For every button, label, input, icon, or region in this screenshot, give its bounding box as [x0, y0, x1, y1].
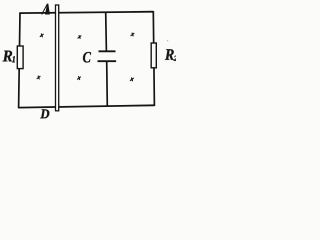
- capacitor C top plate: [99, 50, 116, 52]
- field cross x1 top-left: [40, 34, 43, 37]
- wire left edge: [19, 12, 20, 108]
- sliding rod AD: [56, 5, 59, 111]
- label D: [40, 109, 49, 118]
- label C: [83, 52, 91, 63]
- field cross x4 bottom-middle: [78, 77, 81, 80]
- field cross x2 bottom-left: [37, 76, 40, 79]
- field cross x3 top-middle: [78, 36, 81, 39]
- field cross x5 top-right: [131, 33, 134, 36]
- resistor R2 box: [151, 43, 156, 68]
- wire top rail A-side: [20, 12, 154, 13]
- label A: [45, 4, 50, 15]
- wire right edge: [153, 11, 154, 106]
- wire bottom rail D-side: [19, 105, 155, 107]
- wire capacitor branch top: [105, 12, 108, 52]
- scan speck: [167, 40, 168, 41]
- label R1: [3, 51, 13, 62]
- field cross x6 bottom-right: [130, 78, 133, 81]
- label R2: [165, 49, 174, 60]
- wire capacitor branch bottom: [106, 61, 109, 106]
- resistor R1 box: [17, 46, 23, 69]
- capacitor C bottom plate: [98, 60, 117, 62]
